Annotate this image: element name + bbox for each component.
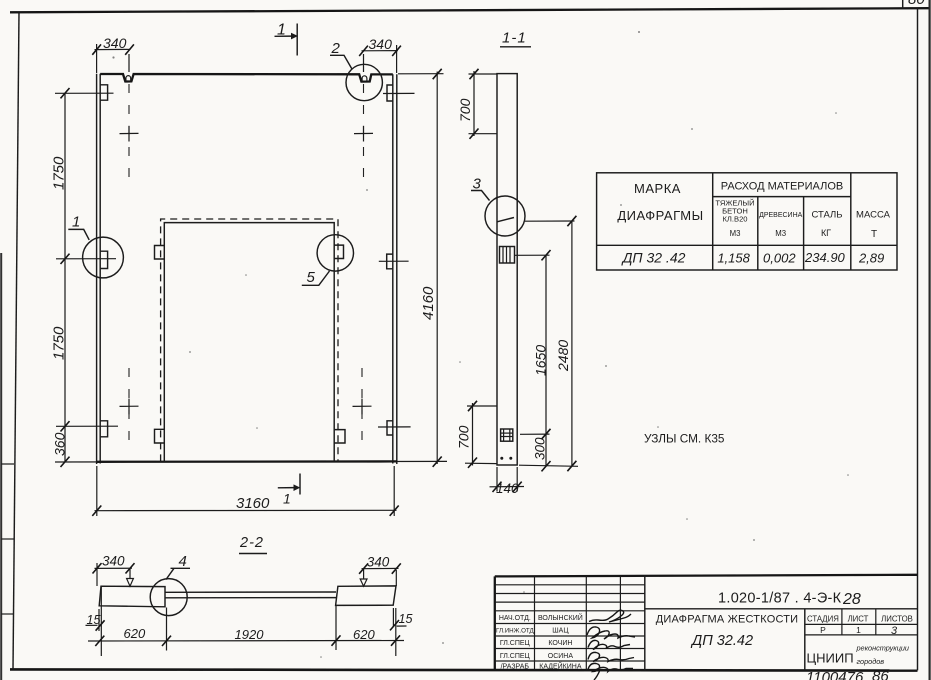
svg-text:700: 700 — [457, 98, 473, 122]
svg-text:городов: городов — [857, 657, 885, 666]
svg-text:1: 1 — [283, 491, 291, 507]
svg-text:МАССА: МАССА — [856, 210, 891, 221]
svg-text:КГ: КГ — [821, 228, 831, 238]
svg-text:М3: М3 — [730, 229, 741, 238]
svg-text:Р: Р — [820, 625, 826, 635]
svg-text:М3: М3 — [775, 229, 786, 238]
svg-text:1920: 1920 — [235, 627, 265, 642]
svg-text:300: 300 — [533, 437, 548, 460]
svg-text:ВОЛЫНСКИЙ: ВОЛЫНСКИЙ — [538, 613, 583, 622]
svg-text:4: 4 — [179, 553, 187, 570]
svg-text:3: 3 — [891, 625, 898, 637]
svg-text:28: 28 — [842, 591, 861, 608]
svg-text:360: 360 — [52, 432, 68, 456]
svg-text:4160: 4160 — [420, 286, 437, 320]
svg-text:ДП 32.42: ДП 32.42 — [690, 633, 753, 649]
svg-text:620: 620 — [124, 626, 146, 641]
svg-text:1.020-1/87 . 4-Э-К: 1.020-1/87 . 4-Э-К — [718, 591, 842, 607]
svg-text:ДИАФРАГМЫ: ДИАФРАГМЫ — [617, 208, 703, 223]
svg-text:2,89: 2,89 — [858, 251, 884, 266]
svg-text:340: 340 — [102, 554, 125, 569]
svg-text:ГЛ.СПЕЦ: ГЛ.СПЕЦ — [500, 640, 531, 647]
svg-text:0,002: 0,002 — [763, 251, 796, 266]
svg-text:СТАЛЬ: СТАЛЬ — [811, 210, 842, 221]
svg-text:2: 2 — [331, 40, 341, 57]
svg-text:ЦНИИП: ЦНИИП — [807, 651, 854, 666]
svg-text:80: 80 — [908, 0, 925, 8]
svg-text:1: 1 — [856, 625, 861, 635]
svg-text:340: 340 — [369, 36, 393, 52]
svg-text:5: 5 — [307, 269, 316, 286]
svg-text:МАРКА: МАРКА — [634, 181, 681, 196]
svg-text:234.90: 234.90 — [804, 250, 846, 265]
svg-text:КЛ.В20: КЛ.В20 — [722, 215, 747, 224]
svg-text:3160: 3160 — [236, 495, 270, 512]
svg-text:15: 15 — [399, 612, 413, 626]
svg-text:ДП 32 .42: ДП 32 .42 — [621, 250, 686, 266]
svg-text:ГЛ.СПЕЦ: ГЛ.СПЕЦ — [500, 653, 531, 660]
svg-text:1: 1 — [277, 22, 286, 39]
svg-text:ШАЦ: ШАЦ — [552, 628, 569, 635]
svg-text:620: 620 — [353, 627, 375, 642]
svg-text:140: 140 — [496, 481, 519, 496]
svg-text:ГЛ.ИНЖ.ОТД: ГЛ.ИНЖ.ОТД — [496, 628, 535, 635]
svg-text:ДРЕВЕСИНА: ДРЕВЕСИНА — [759, 212, 803, 219]
svg-text:1750: 1750 — [51, 156, 68, 190]
svg-text:реконструкции: реконструкции — [856, 644, 909, 653]
svg-text:ДИАФРАГМА ЖЕСТКОСТИ: ДИАФРАГМА ЖЕСТКОСТИ — [656, 614, 799, 626]
svg-text:340: 340 — [367, 555, 390, 570]
svg-text:ОСИНА: ОСИНА — [548, 653, 574, 660]
svg-text:КОЧИН: КОЧИН — [548, 640, 572, 647]
svg-text:УЗЛЫ СМ. К35: УЗЛЫ СМ. К35 — [644, 432, 725, 446]
svg-text:2-2: 2-2 — [239, 535, 264, 551]
svg-text:340: 340 — [103, 35, 127, 51]
svg-text:1100476: 1100476 — [806, 669, 864, 680]
svg-text:НАЧ.ОТД.: НАЧ.ОТД. — [499, 615, 531, 622]
svg-text:КАДЕЙКИНА: КАДЕЙКИНА — [539, 661, 582, 670]
svg-text:ЛИСТ: ЛИСТ — [848, 615, 869, 624]
svg-text:Т: Т — [871, 229, 877, 240]
svg-text:СТАДИЯ: СТАДИЯ — [807, 615, 839, 624]
svg-text:1-1: 1-1 — [502, 30, 527, 47]
svg-text:700: 700 — [456, 425, 472, 449]
svg-text:2480: 2480 — [555, 340, 571, 372]
svg-text:1: 1 — [72, 214, 80, 231]
svg-text:1,158: 1,158 — [717, 251, 750, 266]
svg-text:/РАЗРАБ: /РАЗРАБ — [501, 663, 530, 670]
svg-text:ЛИСТОВ: ЛИСТОВ — [881, 615, 913, 624]
svg-text:1650: 1650 — [533, 345, 549, 376]
svg-text:1750: 1750 — [51, 326, 68, 360]
svg-text:86: 86 — [872, 668, 889, 680]
svg-text:РАСХОД МАТЕРИАЛОВ: РАСХОД МАТЕРИАЛОВ — [721, 181, 843, 193]
